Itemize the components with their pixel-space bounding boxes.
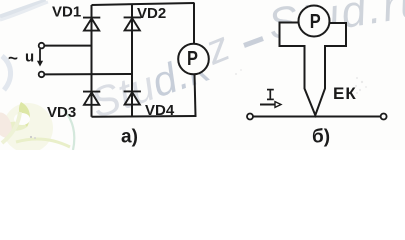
svg-text:а): а) xyxy=(121,127,138,148)
svg-text:б): б) xyxy=(312,127,330,148)
svg-text:VD4: VD4 xyxy=(145,102,175,119)
svg-text:P: P xyxy=(310,9,321,32)
svg-text:u: u xyxy=(25,48,34,65)
svg-text:VD2: VD2 xyxy=(137,5,166,22)
svg-text:VD1: VD1 xyxy=(52,4,81,21)
svg-text:~: ~ xyxy=(8,49,18,68)
svg-text:P: P xyxy=(187,46,198,69)
svg-text:ЕК: ЕК xyxy=(333,84,357,103)
svg-text:VD3: VD3 xyxy=(47,104,76,121)
